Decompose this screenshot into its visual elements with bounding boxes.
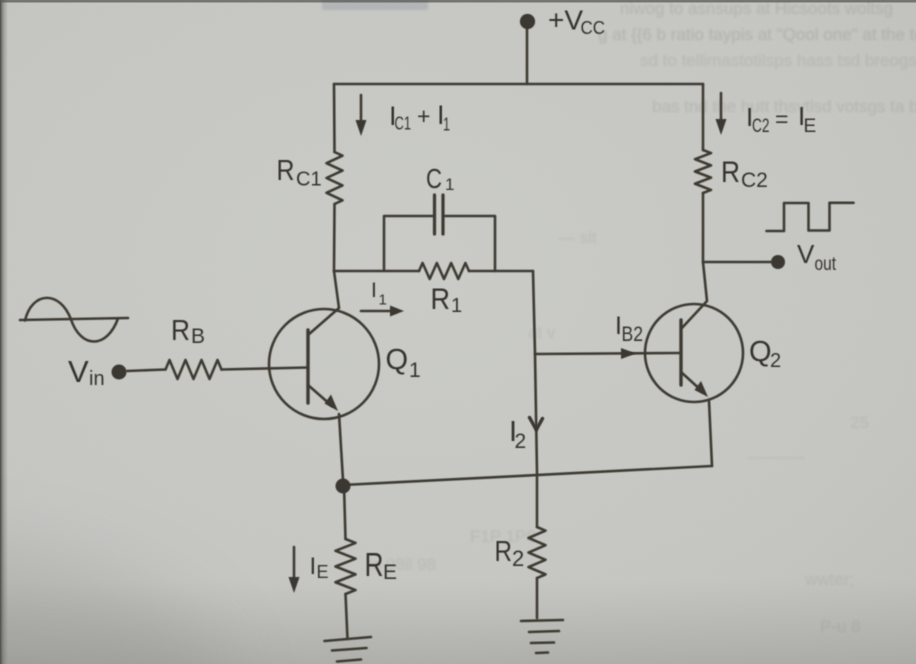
svg-text:out: out	[815, 254, 837, 275]
svg-text:1: 1	[443, 115, 450, 135]
transistor Q1 base bar	[306, 330, 309, 403]
wire C1 right stub	[443, 216, 495, 271]
arrowhead IB2 on base wire	[621, 348, 636, 359]
square wave symbol	[767, 203, 854, 231]
svg-text:E: E	[804, 116, 817, 137]
arrowhead I2 on wire	[530, 418, 543, 430]
svg-text:I: I	[310, 553, 317, 580]
capacitor C1	[435, 195, 444, 234]
svg-text:at v: at v	[528, 323, 556, 342]
resistor RB	[166, 360, 222, 379]
wire Q2 base	[535, 353, 681, 354]
svg-text:R: R	[365, 546, 384, 583]
svg-text:C1: C1	[395, 114, 412, 134]
svg-text:1: 1	[409, 359, 421, 382]
svg-text:C2: C2	[741, 169, 768, 192]
svg-text:C2: C2	[752, 116, 770, 137]
svg-text:1: 1	[379, 292, 387, 309]
svg-text:25: 25	[850, 413, 869, 432]
svg-text:R: R	[431, 283, 451, 316]
wire VCC stem	[526, 26, 529, 84]
svg-text:wwter;: wwter;	[804, 570, 854, 589]
ground under R2	[521, 620, 563, 621]
wire R1 to corner	[469, 270, 533, 273]
svg-text:B2: B2	[622, 323, 644, 346]
svg-text:2: 2	[770, 350, 781, 372]
svg-text:Q: Q	[386, 344, 409, 376]
wire base from RB	[127, 370, 166, 372]
resistor R2	[529, 527, 546, 578]
arrow I1 shaft	[361, 310, 395, 313]
svg-text:C1: C1	[296, 169, 322, 191]
svg-text:=: =	[775, 106, 788, 132]
arrowhead IC2	[716, 119, 727, 135]
wire Q2 emitter	[681, 372, 703, 392]
arrow IE shaft	[293, 547, 296, 581]
wire RC2 to Vout node	[702, 193, 705, 262]
svg-text:R: R	[495, 536, 513, 568]
svg-text:g at {{6 b ratio taypis at "Qo: g at {{6 b ratio taypis at "Qool one" at…	[598, 25, 916, 44]
svg-text:niwog to asnsups at Hicsoots w: niwog to asnsups at Hicsoots woltsg	[620, 0, 893, 18]
wire R1R2 vertical	[533, 271, 537, 527]
node VCC dot	[520, 14, 535, 29]
svg-text:Q: Q	[749, 336, 772, 368]
resistor RE	[336, 539, 356, 594]
svg-text:2: 2	[512, 546, 524, 571]
svg-text:+: +	[417, 103, 430, 129]
wire RB to Q1 base	[222, 368, 309, 370]
node Vin dot	[112, 365, 127, 380]
svg-text:sd to tellimastotilsps hass ts: sd to tellimastotilsps hass tsd breogs	[640, 51, 916, 70]
wire Q2 collector	[681, 262, 707, 329]
wire RC1 to node	[333, 204, 336, 271]
transistor Q1 circle	[269, 309, 379, 419]
svg-text:+V: +V	[548, 5, 583, 36]
svg-text:2: 2	[515, 430, 527, 453]
svg-text:1: 1	[445, 175, 454, 194]
svg-text:______: ______	[747, 440, 805, 459]
wire right drop	[702, 84, 705, 150]
sine symbol axis	[20, 318, 128, 320]
ground under RE	[325, 637, 372, 641]
svg-text:CC: CC	[581, 18, 606, 38]
resistor RC2	[695, 150, 711, 193]
arrowhead Q2 emitter	[695, 381, 709, 397]
svg-text:V: V	[68, 354, 89, 389]
bleed-through text from reverse page	[322, 0, 916, 636]
wire common emitter line	[343, 466, 712, 485]
svg-text:R: R	[277, 155, 295, 187]
sine symbol wave	[25, 298, 118, 342]
wire Q1 collector	[308, 271, 339, 335]
arrowhead I1	[390, 306, 404, 317]
transistor Q2 circle	[645, 304, 743, 402]
svg-text:P-u 8: P-u 8	[820, 617, 861, 636]
node Vout dot	[771, 255, 785, 269]
node emitter junction dot	[336, 479, 351, 494]
svg-text:1: 1	[451, 295, 462, 317]
svg-text:R: R	[171, 315, 190, 347]
wire node to R1	[334, 270, 419, 273]
svg-text:R: R	[721, 156, 740, 189]
svg-text:E: E	[317, 562, 329, 582]
wire Vout	[703, 261, 771, 264]
wire top rail	[334, 83, 703, 86]
wire left drop to RC1	[333, 84, 336, 152]
svg-text:V: V	[797, 239, 815, 269]
resistor RC1	[327, 152, 343, 204]
transistor Q2 base bar	[679, 320, 682, 385]
svg-text:C: C	[426, 163, 442, 194]
wire RE to ground	[346, 594, 348, 639]
wire R2 to ground	[536, 578, 539, 618]
svg-text:E: E	[383, 561, 397, 584]
svg-text:— sit: — sit	[558, 228, 597, 247]
arrowhead Q1 emitter	[325, 395, 339, 412]
svg-text:in: in	[89, 368, 105, 390]
arrowhead IE	[289, 577, 300, 593]
wire Q1 emitter	[308, 385, 332, 406]
wire RE chain	[344, 486, 346, 539]
arrow IC1 shaft	[360, 95, 363, 124]
resistor R1	[419, 263, 469, 279]
arrow IC2 shaft	[720, 93, 723, 123]
svg-text:B: B	[191, 325, 205, 348]
svg-text:I: I	[371, 279, 377, 302]
wire C1 left stub	[384, 216, 434, 271]
arrowhead IC1	[356, 120, 367, 136]
